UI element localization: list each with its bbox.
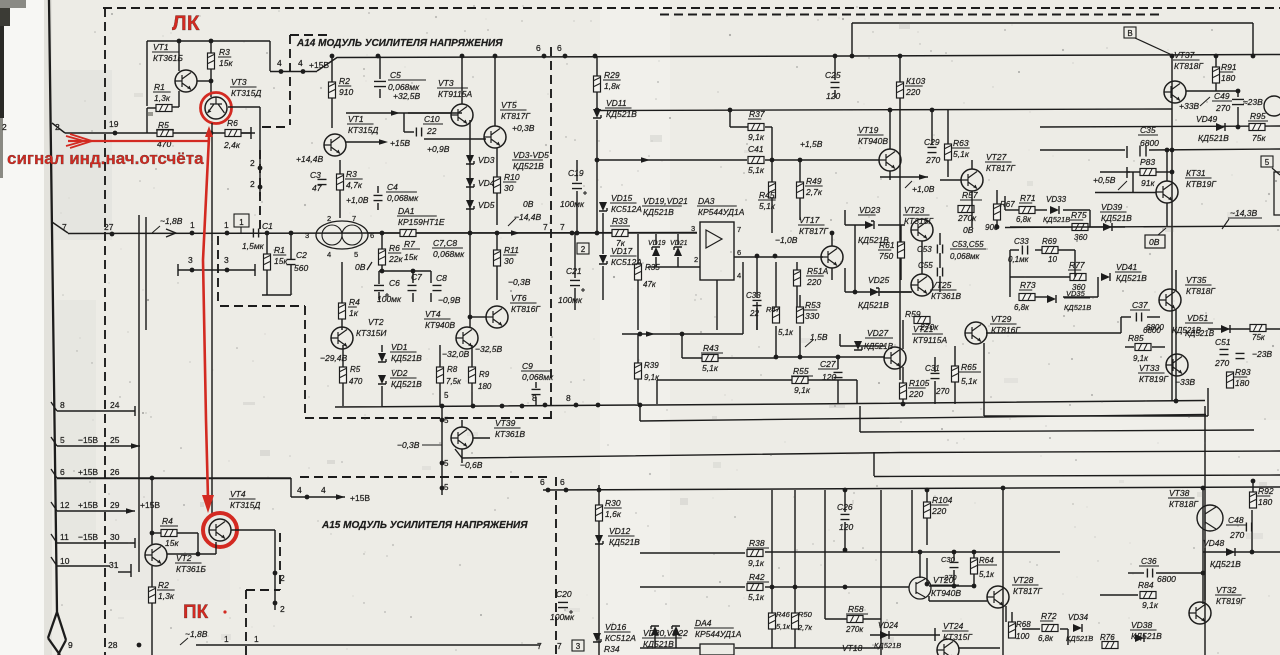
svg-text:VD48: VD48 xyxy=(1203,538,1225,548)
svg-text:C33: C33 xyxy=(746,291,761,300)
svg-text:4: 4 xyxy=(277,58,282,68)
svg-text:VT4: VT4 xyxy=(425,309,441,319)
svg-text:КД521В: КД521В xyxy=(643,207,674,217)
svg-text:КТ817Г: КТ817Г xyxy=(799,226,829,236)
svg-text:+15В: +15В xyxy=(78,467,98,477)
svg-text:C9: C9 xyxy=(522,361,533,371)
svg-text:47: 47 xyxy=(312,183,322,193)
svg-text:91к: 91к xyxy=(1141,178,1155,188)
svg-text:6: 6 xyxy=(737,248,741,257)
svg-text:6,8к: 6,8к xyxy=(1038,634,1054,643)
svg-text:R77: R77 xyxy=(1069,260,1085,270)
svg-text:R67: R67 xyxy=(1000,200,1015,209)
svg-text:15к: 15к xyxy=(165,538,179,548)
svg-text:VT33: VT33 xyxy=(1139,363,1160,373)
svg-text:2: 2 xyxy=(2,122,7,132)
svg-text:5: 5 xyxy=(444,483,449,492)
svg-text:КТ315Д: КТ315Д xyxy=(230,500,260,510)
svg-text:КД521В: КД521В xyxy=(1064,303,1091,312)
svg-text:+15В: +15В xyxy=(78,500,98,510)
svg-text:+14,4В: +14,4В xyxy=(296,154,324,164)
svg-text:270: 270 xyxy=(935,387,950,396)
svg-text:−14,4В: −14,4В xyxy=(514,212,542,222)
svg-text:−1,0В: −1,0В xyxy=(775,235,798,245)
svg-text:0,068мк: 0,068мк xyxy=(433,249,465,259)
svg-text:7,5к: 7,5к xyxy=(446,377,462,386)
svg-text:R51А: R51А xyxy=(807,266,829,276)
svg-text:5,1к: 5,1к xyxy=(748,165,765,175)
svg-text:9,1к: 9,1к xyxy=(644,373,660,382)
svg-text:R30: R30 xyxy=(605,498,621,508)
svg-text:А15 МОДУЛЬ УСИЛИТЕЛЯ НАПРЯЖЕНИ: А15 МОДУЛЬ УСИЛИТЕЛЯ НАПРЯЖЕНИЯ xyxy=(321,520,528,531)
svg-text:R53: R53 xyxy=(805,300,821,310)
svg-text:R7: R7 xyxy=(404,239,415,249)
svg-text:C2: C2 xyxy=(296,250,307,260)
svg-text:2: 2 xyxy=(581,245,586,254)
svg-text:C37: C37 xyxy=(1132,300,1148,310)
svg-text:R1: R1 xyxy=(154,82,165,92)
svg-text:5: 5 xyxy=(444,391,449,400)
svg-text:C8: C8 xyxy=(436,273,447,283)
svg-text:КД521В: КД521В xyxy=(1198,133,1229,143)
svg-text:2: 2 xyxy=(250,158,255,168)
svg-text:R50: R50 xyxy=(798,610,813,619)
svg-text:C27: C27 xyxy=(820,359,836,369)
svg-text:4: 4 xyxy=(737,271,741,280)
svg-text:5,1к: 5,1к xyxy=(961,376,978,386)
svg-text:КТ315Д: КТ315Д xyxy=(231,88,261,98)
svg-text:0,068мк: 0,068мк xyxy=(387,193,419,203)
svg-text:8: 8 xyxy=(60,400,65,410)
svg-text:VD11: VD11 xyxy=(606,98,627,108)
svg-text:100мк: 100мк xyxy=(560,199,585,209)
svg-text:VT1: VT1 xyxy=(153,42,169,52)
svg-text:R4: R4 xyxy=(349,297,360,307)
svg-text:1к: 1к xyxy=(349,308,359,318)
svg-text:26: 26 xyxy=(110,467,120,477)
svg-text:КД521В: КД521В xyxy=(606,109,637,119)
svg-text:КД521В: КД521В xyxy=(1172,326,1202,335)
svg-text:75к: 75к xyxy=(1252,133,1266,143)
svg-text:VD20,VD22: VD20,VD22 xyxy=(643,628,688,638)
svg-text:R105: R105 xyxy=(909,378,930,388)
svg-text:C4: C4 xyxy=(387,182,398,192)
svg-text:9,1к: 9,1к xyxy=(1142,600,1159,610)
svg-text:2,7к: 2,7к xyxy=(805,187,823,197)
svg-text:VT27: VT27 xyxy=(986,152,1007,162)
svg-text:0,1мк: 0,1мк xyxy=(1008,255,1030,264)
svg-text:~1,8В: ~1,8В xyxy=(160,216,183,226)
svg-text:3: 3 xyxy=(305,231,309,240)
svg-text:180: 180 xyxy=(1235,378,1249,388)
svg-text:120: 120 xyxy=(822,372,836,382)
svg-text:1,5мк: 1,5мк xyxy=(242,241,265,251)
svg-text:6800: 6800 xyxy=(1146,323,1164,332)
svg-text:VD23: VD23 xyxy=(859,205,881,215)
svg-text:1,3к: 1,3к xyxy=(154,93,171,103)
svg-text:28: 28 xyxy=(108,640,118,650)
svg-text:C25: C25 xyxy=(825,70,841,80)
svg-text:3: 3 xyxy=(576,642,581,651)
svg-text:VT19: VT19 xyxy=(858,125,879,135)
svg-text:VT23: VT23 xyxy=(904,205,925,215)
svg-text:VT38: VT38 xyxy=(1169,488,1190,498)
svg-text:КД521В: КД521В xyxy=(1043,215,1070,224)
svg-text:VT6: VT6 xyxy=(511,293,527,303)
svg-text:R37: R37 xyxy=(749,109,765,119)
svg-text:R58: R58 xyxy=(848,604,864,614)
svg-text:КТ817Г: КТ817Г xyxy=(986,163,1016,173)
svg-text:6800: 6800 xyxy=(1140,138,1159,148)
svg-text:5: 5 xyxy=(1265,158,1270,167)
svg-text:+32,5В: +32,5В xyxy=(393,91,421,101)
svg-text:ЛК: ЛК xyxy=(172,12,200,35)
svg-text:5,1к: 5,1к xyxy=(759,201,776,211)
svg-text:VD21: VD21 xyxy=(670,240,688,247)
svg-text:VT25: VT25 xyxy=(931,280,952,290)
svg-text:КТ315Г: КТ315Г xyxy=(904,216,934,226)
svg-text:КТ315Д: КТ315Д xyxy=(348,125,378,135)
svg-text:R59: R59 xyxy=(905,309,921,319)
svg-text:9,1к: 9,1к xyxy=(1133,354,1149,363)
svg-text:VD27: VD27 xyxy=(867,328,889,338)
svg-text:C1: C1 xyxy=(262,221,273,231)
svg-text:5,1к: 5,1к xyxy=(748,592,765,602)
svg-text:R43: R43 xyxy=(703,343,719,353)
svg-text:100мк: 100мк xyxy=(377,294,402,304)
svg-text:0,068мк: 0,068мк xyxy=(522,372,554,382)
svg-text:1: 1 xyxy=(239,218,244,227)
svg-text:220: 220 xyxy=(806,277,821,287)
svg-text:КР544УД1А: КР544УД1А xyxy=(695,629,742,639)
svg-text:≈23В: ≈23В xyxy=(1243,97,1263,107)
svg-text:−32,5В: −32,5В xyxy=(475,344,503,354)
svg-text:VT37: VT37 xyxy=(1174,50,1195,60)
svg-text:6: 6 xyxy=(560,477,565,487)
svg-text:ПК: ПК xyxy=(183,602,209,623)
svg-text:6,8к: 6,8к xyxy=(1014,303,1030,312)
svg-text:1: 1 xyxy=(190,220,195,230)
svg-text:КД521В: КД521В xyxy=(391,379,422,389)
svg-text:3: 3 xyxy=(224,255,229,265)
svg-text:VT3: VT3 xyxy=(231,77,247,87)
svg-text:30: 30 xyxy=(110,532,120,542)
svg-text:C51: C51 xyxy=(1215,337,1231,347)
svg-text:+15В: +15В xyxy=(350,493,370,503)
svg-text:270: 270 xyxy=(1215,103,1230,113)
svg-text:DA4: DA4 xyxy=(695,618,712,628)
svg-text:VD4: VD4 xyxy=(478,178,495,188)
svg-text:5: 5 xyxy=(60,435,65,445)
svg-text:R42: R42 xyxy=(749,572,765,582)
svg-text:9,1к: 9,1к xyxy=(748,558,765,568)
svg-text:КС512А: КС512А xyxy=(605,633,636,643)
svg-text:R39: R39 xyxy=(644,361,659,370)
svg-text:C21: C21 xyxy=(566,266,582,276)
svg-text:VT17: VT17 xyxy=(799,215,820,225)
svg-text:R65: R65 xyxy=(961,362,977,372)
svg-text:12: 12 xyxy=(60,500,70,510)
svg-text:270к: 270к xyxy=(957,213,977,223)
svg-text:КД521В: КД521В xyxy=(858,300,889,310)
svg-text:7: 7 xyxy=(537,641,542,651)
svg-text:1,6к: 1,6к xyxy=(605,509,622,519)
svg-text:КТ940В: КТ940В xyxy=(425,320,455,330)
svg-text:750: 750 xyxy=(879,251,893,261)
svg-text:31: 31 xyxy=(109,560,119,570)
svg-text:C48: C48 xyxy=(1228,515,1244,525)
svg-text:R2: R2 xyxy=(339,76,350,86)
svg-text:Р83: Р83 xyxy=(1140,157,1155,167)
svg-text:КТ315Г: КТ315Г xyxy=(943,632,973,642)
svg-text:22: 22 xyxy=(426,126,437,136)
svg-text:R61: R61 xyxy=(879,240,895,250)
svg-text:5,1к: 5,1к xyxy=(778,328,794,337)
svg-text:КТ361В: КТ361В xyxy=(931,291,961,301)
svg-text:R6: R6 xyxy=(389,243,400,253)
svg-text:VT21: VT21 xyxy=(913,324,934,334)
svg-text:2: 2 xyxy=(250,179,255,189)
svg-text:КД521В: КД521В xyxy=(513,161,544,171)
svg-text:VT4: VT4 xyxy=(230,489,246,499)
svg-text:560: 560 xyxy=(294,263,308,273)
svg-text:C6: C6 xyxy=(389,278,400,288)
svg-text:+0,3В: +0,3В xyxy=(512,123,535,133)
svg-text:R63: R63 xyxy=(953,138,969,148)
svg-text:КТ818Г: КТ818Г xyxy=(1186,286,1216,296)
svg-text:R75: R75 xyxy=(1071,210,1087,220)
svg-text:10: 10 xyxy=(60,556,70,566)
svg-text:КР159НТ1Е: КР159НТ1Е xyxy=(398,217,445,227)
svg-text:7: 7 xyxy=(352,214,356,223)
svg-text:120: 120 xyxy=(839,522,853,532)
svg-text:25: 25 xyxy=(110,435,120,445)
svg-text:VD39: VD39 xyxy=(1101,202,1123,212)
svg-text:R95: R95 xyxy=(1250,111,1266,121)
svg-text:6: 6 xyxy=(557,43,562,53)
svg-text:−0,9В: −0,9В xyxy=(438,295,461,305)
svg-text:+0,9В: +0,9В xyxy=(427,144,450,154)
svg-text:−32,0В: −32,0В xyxy=(442,349,470,359)
svg-text:R1: R1 xyxy=(274,245,285,255)
svg-text:2: 2 xyxy=(694,255,698,264)
svg-text:+1,5В: +1,5В xyxy=(800,139,823,149)
svg-text:27: 27 xyxy=(104,222,114,232)
svg-text:КС512А: КС512А xyxy=(611,257,642,267)
svg-text:22: 22 xyxy=(749,309,759,318)
svg-text:VD49: VD49 xyxy=(1196,114,1218,124)
svg-text:5,1к: 5,1к xyxy=(776,622,790,631)
svg-text:VD19,VD21: VD19,VD21 xyxy=(643,196,688,206)
svg-text:R49: R49 xyxy=(806,176,822,186)
svg-text:C5: C5 xyxy=(390,70,401,80)
svg-text:R93: R93 xyxy=(1235,367,1251,377)
svg-text:15к: 15к xyxy=(274,256,288,266)
svg-text:R33: R33 xyxy=(612,216,628,226)
svg-text:КТ940В: КТ940В xyxy=(931,588,961,598)
svg-text:КТ940В: КТ940В xyxy=(858,136,888,146)
svg-text:VT5: VT5 xyxy=(501,100,517,110)
svg-text:R4: R4 xyxy=(162,516,173,526)
svg-text:+33В: +33В xyxy=(1179,101,1199,111)
svg-text:4,7к: 4,7к xyxy=(346,180,363,190)
svg-text:КД521В: КД521В xyxy=(609,537,640,547)
svg-text:КТ9115А: КТ9115А xyxy=(438,89,472,99)
svg-text:VT3: VT3 xyxy=(438,78,454,88)
svg-text:VD34: VD34 xyxy=(1068,613,1089,622)
svg-text:2: 2 xyxy=(280,573,285,583)
svg-text:9,1к: 9,1к xyxy=(794,385,811,395)
svg-text:270: 270 xyxy=(1229,530,1244,540)
svg-text:24: 24 xyxy=(110,400,120,410)
svg-text:R34: R34 xyxy=(604,644,620,654)
svg-text:4: 4 xyxy=(297,485,302,495)
svg-text:220: 220 xyxy=(931,506,946,516)
svg-text:3: 3 xyxy=(188,255,193,265)
svg-text:R55: R55 xyxy=(793,366,809,376)
svg-text:VT28: VT28 xyxy=(1013,575,1034,585)
svg-text:КТВ19Г: КТВ19Г xyxy=(1186,179,1217,189)
svg-text:R6: R6 xyxy=(227,118,238,128)
svg-text:КТ361В: КТ361В xyxy=(495,429,525,439)
svg-text:VD15: VD15 xyxy=(611,193,633,203)
svg-text:6800: 6800 xyxy=(1157,574,1176,584)
svg-text:3: 3 xyxy=(691,224,695,233)
svg-text:22к: 22к xyxy=(388,254,403,264)
svg-text:VT24: VT24 xyxy=(943,621,964,631)
svg-text:4: 4 xyxy=(321,485,326,495)
svg-text:1: 1 xyxy=(224,220,229,230)
svg-text:+15В: +15В xyxy=(390,138,410,148)
svg-text:10: 10 xyxy=(1048,255,1057,264)
svg-text:C53: C53 xyxy=(917,245,932,254)
svg-text:R71: R71 xyxy=(1020,193,1036,203)
svg-text:R92: R92 xyxy=(1258,486,1274,496)
svg-text:VD3-VD5: VD3-VD5 xyxy=(513,150,549,160)
svg-text:330: 330 xyxy=(805,311,819,321)
svg-text:100мк: 100мк xyxy=(550,612,575,622)
svg-text:7: 7 xyxy=(543,222,548,232)
svg-text:180: 180 xyxy=(1221,73,1235,83)
svg-text:R68: R68 xyxy=(1016,620,1031,629)
svg-text:2: 2 xyxy=(280,604,285,614)
svg-text:C19: C19 xyxy=(568,168,584,178)
svg-text:К103: К103 xyxy=(906,76,925,86)
svg-text:КТ819Г: КТ819Г xyxy=(1216,596,1246,606)
svg-text:75к: 75к xyxy=(1252,333,1266,342)
svg-text:КТ818Г: КТ818Г xyxy=(1169,499,1199,509)
svg-text:R84: R84 xyxy=(1138,580,1154,590)
svg-text:R3: R3 xyxy=(219,47,230,57)
svg-text:5,1к: 5,1к xyxy=(702,363,719,373)
svg-text:−33В: −33В xyxy=(1175,377,1195,387)
svg-text:R73: R73 xyxy=(1020,280,1036,290)
svg-text:КД521В: КД521В xyxy=(391,353,422,363)
svg-text:5: 5 xyxy=(444,459,449,468)
svg-text:КТ9115А: КТ9115А xyxy=(913,335,947,345)
svg-text:КД521В: КД521В xyxy=(864,342,894,351)
svg-text:0В: 0В xyxy=(355,262,366,272)
svg-text:R72: R72 xyxy=(1041,611,1057,621)
svg-text:2: 2 xyxy=(327,214,331,223)
svg-text:5,1к: 5,1к xyxy=(953,149,970,159)
svg-text:19: 19 xyxy=(109,119,119,129)
svg-text:R46: R46 xyxy=(776,610,791,619)
svg-text:C31: C31 xyxy=(925,364,940,373)
svg-text:C53,C55: C53,C55 xyxy=(952,240,984,249)
svg-text:VD12: VD12 xyxy=(609,526,631,536)
svg-text:VT39: VT39 xyxy=(495,418,516,428)
svg-text:R38: R38 xyxy=(749,538,765,548)
svg-text:6,8к: 6,8к xyxy=(1016,215,1032,224)
svg-text:VD25: VD25 xyxy=(868,275,890,285)
svg-text:8: 8 xyxy=(532,393,537,403)
svg-text:5: 5 xyxy=(354,250,358,259)
svg-text:VT32: VT32 xyxy=(1216,585,1237,595)
svg-text:910: 910 xyxy=(339,87,353,97)
svg-text:C3: C3 xyxy=(310,170,321,180)
svg-text:R29: R29 xyxy=(604,70,620,80)
svg-text:30: 30 xyxy=(504,183,514,193)
svg-text:КД521В: КД521В xyxy=(1101,213,1132,223)
svg-text:КТ817Г: КТ817Г xyxy=(501,111,531,121)
svg-text:C33: C33 xyxy=(1014,237,1029,246)
svg-text:29: 29 xyxy=(110,500,120,510)
svg-text:R8: R8 xyxy=(447,365,458,374)
svg-text:VD19: VD19 xyxy=(648,240,666,247)
svg-text:C7,C8: C7,C8 xyxy=(433,238,457,248)
svg-text:VD51: VD51 xyxy=(1187,313,1209,323)
svg-text:~1,8В: ~1,8В xyxy=(185,629,208,639)
svg-text:КД521В: КД521В xyxy=(1131,631,1162,641)
svg-text:7: 7 xyxy=(737,225,741,234)
svg-text:R10: R10 xyxy=(504,172,520,182)
svg-text:2,7к: 2,7к xyxy=(797,623,812,632)
svg-text:КТ361Б: КТ361Б xyxy=(176,564,206,574)
svg-text:сигнал инд.нач.отсчёта: сигнал инд.нач.отсчёта xyxy=(7,149,204,168)
svg-text:1,3к: 1,3к xyxy=(158,591,175,601)
svg-text:+15В: +15В xyxy=(140,500,160,510)
svg-text:VD3: VD3 xyxy=(478,155,495,165)
svg-text:КТ818Г: КТ818Г xyxy=(1174,61,1204,71)
svg-text:КТ816Г: КТ816Г xyxy=(511,304,541,314)
svg-text:11: 11 xyxy=(60,532,69,542)
svg-text:А14 МОДУЛЬ УСИЛИТЕЛЯ НАПРЯЖЕНИ: А14 МОДУЛЬ УСИЛИТЕЛЯ НАПРЯЖЕНИЯ xyxy=(296,38,503,49)
svg-text:6: 6 xyxy=(60,467,65,477)
svg-text:VD5: VD5 xyxy=(478,200,495,210)
svg-text:9,1к: 9,1к xyxy=(748,132,765,142)
svg-text:1: 1 xyxy=(254,634,259,644)
svg-text:КТ817Г: КТ817Г xyxy=(1013,586,1043,596)
svg-text:R5: R5 xyxy=(350,365,361,374)
svg-text:КТ819Г: КТ819Г xyxy=(1139,374,1169,384)
svg-text:4: 4 xyxy=(298,58,303,68)
svg-text:+1,0В: +1,0В xyxy=(912,184,935,194)
svg-text:5,1к: 5,1к xyxy=(979,570,995,579)
svg-text:C36: C36 xyxy=(1141,556,1157,566)
svg-text:VD1: VD1 xyxy=(391,342,408,352)
svg-text:100мк: 100мк xyxy=(558,295,583,305)
svg-text:220: 220 xyxy=(905,87,920,97)
svg-text:VD38: VD38 xyxy=(1131,620,1153,630)
svg-text:R9: R9 xyxy=(479,370,490,379)
svg-text:R3: R3 xyxy=(346,169,357,179)
svg-text:7: 7 xyxy=(560,222,565,232)
svg-text:−0,3В: −0,3В xyxy=(397,440,420,450)
svg-text:5: 5 xyxy=(444,416,449,425)
svg-text:−15В: −15В xyxy=(78,435,98,445)
svg-text:2,4к: 2,4к xyxy=(223,140,241,150)
